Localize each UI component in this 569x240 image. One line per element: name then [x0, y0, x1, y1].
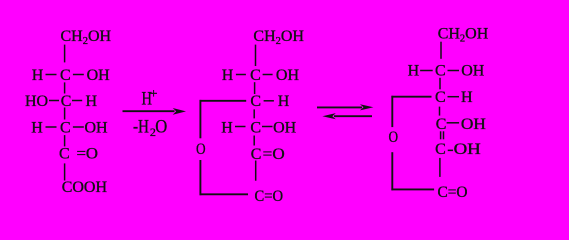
- equilibrium top arrowhead right: [360, 104, 373, 110]
- svg-text:OH: OH: [461, 63, 485, 80]
- equilibrium top arrow shaft: [317, 106, 362, 108]
- svg-text:HO: HO: [25, 93, 48, 110]
- svg-text:H: H: [31, 120, 43, 137]
- structure 1: keto acid (left Fischer projection): [25, 28, 112, 196]
- equilibrium arrows: [317, 104, 373, 119]
- ring bond bottom horizontal (S3): [391, 188, 434, 190]
- bond C3-H (S1): [72, 100, 82, 102]
- svg-text:H: H: [278, 93, 290, 110]
- bond H-C2 (S3): [420, 70, 433, 72]
- svg-text:C=O: C=O: [438, 184, 468, 201]
- svg-text:O: O: [196, 141, 206, 158]
- bond C3-C4 (S2): [253, 109, 255, 118]
- svg-text:H: H: [222, 67, 234, 84]
- ring bond left vertical upper (S3): [391, 96, 393, 127]
- ring bond left vertical lower (S3): [391, 152, 393, 190]
- svg-text:H: H: [408, 63, 420, 80]
- svg-text:C: C: [59, 146, 70, 163]
- arrowhead (forward reaction): [173, 108, 186, 115]
- svg-text:=O: =O: [77, 146, 99, 163]
- bond C5-C6 (S2): [255, 161, 257, 181]
- bond C2-C3 (S2): [254, 82, 256, 94]
- bond C1-C2 (S2): [255, 45, 257, 66]
- bond C2-OH (S1): [73, 74, 84, 76]
- bond H-C4 (S1): [46, 126, 57, 128]
- svg-text:C: C: [436, 116, 447, 133]
- ring bond left vertical upper (S2): [199, 100, 201, 138]
- structure 2: lactone (middle Fischer projection): [196, 28, 304, 205]
- svg-text:H: H: [86, 93, 98, 110]
- svg-text:-OH: -OH: [447, 141, 481, 158]
- svg-text:C: C: [60, 67, 71, 84]
- svg-text:OH: OH: [461, 116, 486, 133]
- equilibrium bottom arrow shaft: [334, 115, 372, 117]
- svg-text:=O: =O: [263, 146, 285, 163]
- bond C4-OH (S1): [73, 126, 84, 128]
- bond C5-C6 (S3): [439, 158, 441, 177]
- svg-text:H: H: [461, 89, 473, 106]
- svg-text:C=O: C=O: [255, 188, 284, 205]
- svg-text:C: C: [435, 63, 446, 80]
- svg-text:C: C: [61, 93, 72, 110]
- svg-text:H: H: [221, 119, 233, 136]
- bond C4-OH (S3): [447, 122, 460, 124]
- arrow shaft (forward reaction): [123, 110, 175, 112]
- svg-text:O: O: [389, 129, 399, 146]
- bond C1-C2 (S1): [64, 45, 66, 63]
- bond C2-OH (S3): [448, 70, 460, 72]
- bond HO-C3 (S1): [49, 100, 59, 102]
- bond C3-H (S3): [448, 96, 460, 98]
- bond C3-C4 (S1): [64, 108, 66, 120]
- bond H-C2 (S2): [236, 74, 246, 76]
- svg-text:H: H: [32, 67, 44, 84]
- svg-text:OH: OH: [85, 120, 109, 137]
- svg-text:OH: OH: [87, 67, 111, 84]
- svg-text:-H: -H: [133, 117, 149, 138]
- svg-text:OH: OH: [273, 119, 297, 136]
- ring bond O-C3 top (S2): [200, 100, 247, 102]
- svg-text:C: C: [435, 141, 446, 158]
- svg-text:OH: OH: [276, 67, 300, 84]
- svg-text:C: C: [251, 146, 262, 163]
- ring bond bottom horizontal (S2): [200, 193, 249, 195]
- ring bond O-C3 top (S3): [391, 96, 431, 98]
- double bond C4=C5 line 2 (S3): [443, 131, 445, 139]
- bond H-C4 (S2): [235, 126, 246, 128]
- bond H-C2 (S1): [46, 74, 57, 76]
- structure 3: enediol lactone (right Fischer projection): [389, 26, 489, 202]
- bond C5-C6 (S1): [64, 163, 66, 180]
- svg-text:C: C: [250, 93, 261, 110]
- reaction arrow with conditions: [123, 87, 187, 139]
- svg-text:C: C: [435, 89, 446, 106]
- bond C3-C4 (S3): [439, 107, 441, 116]
- bond C1-C2 (S3): [440, 42, 442, 59]
- bond C2-C3 (S1): [64, 82, 66, 93]
- svg-text:C: C: [250, 67, 261, 84]
- bond C4-C5 (S1): [64, 135, 66, 146]
- equilibrium bottom arrowhead left: [322, 113, 335, 119]
- svg-text:C: C: [60, 120, 71, 137]
- svg-text:+: +: [150, 87, 158, 102]
- bond C3-H (S2): [264, 100, 274, 102]
- bond C2-C3 (S3): [439, 78, 441, 90]
- svg-text:C: C: [250, 119, 261, 136]
- ring bond left vertical lower (S2): [199, 160, 201, 195]
- bond C2-OH (S2): [263, 74, 273, 76]
- bond C4-OH (S2): [262, 126, 273, 128]
- double bond C4=C5 line 1 (S3): [440, 131, 442, 139]
- bond C4-C5 (S2): [253, 136, 255, 146]
- svg-text:O: O: [155, 117, 167, 138]
- svg-text:COOH: COOH: [62, 179, 108, 196]
